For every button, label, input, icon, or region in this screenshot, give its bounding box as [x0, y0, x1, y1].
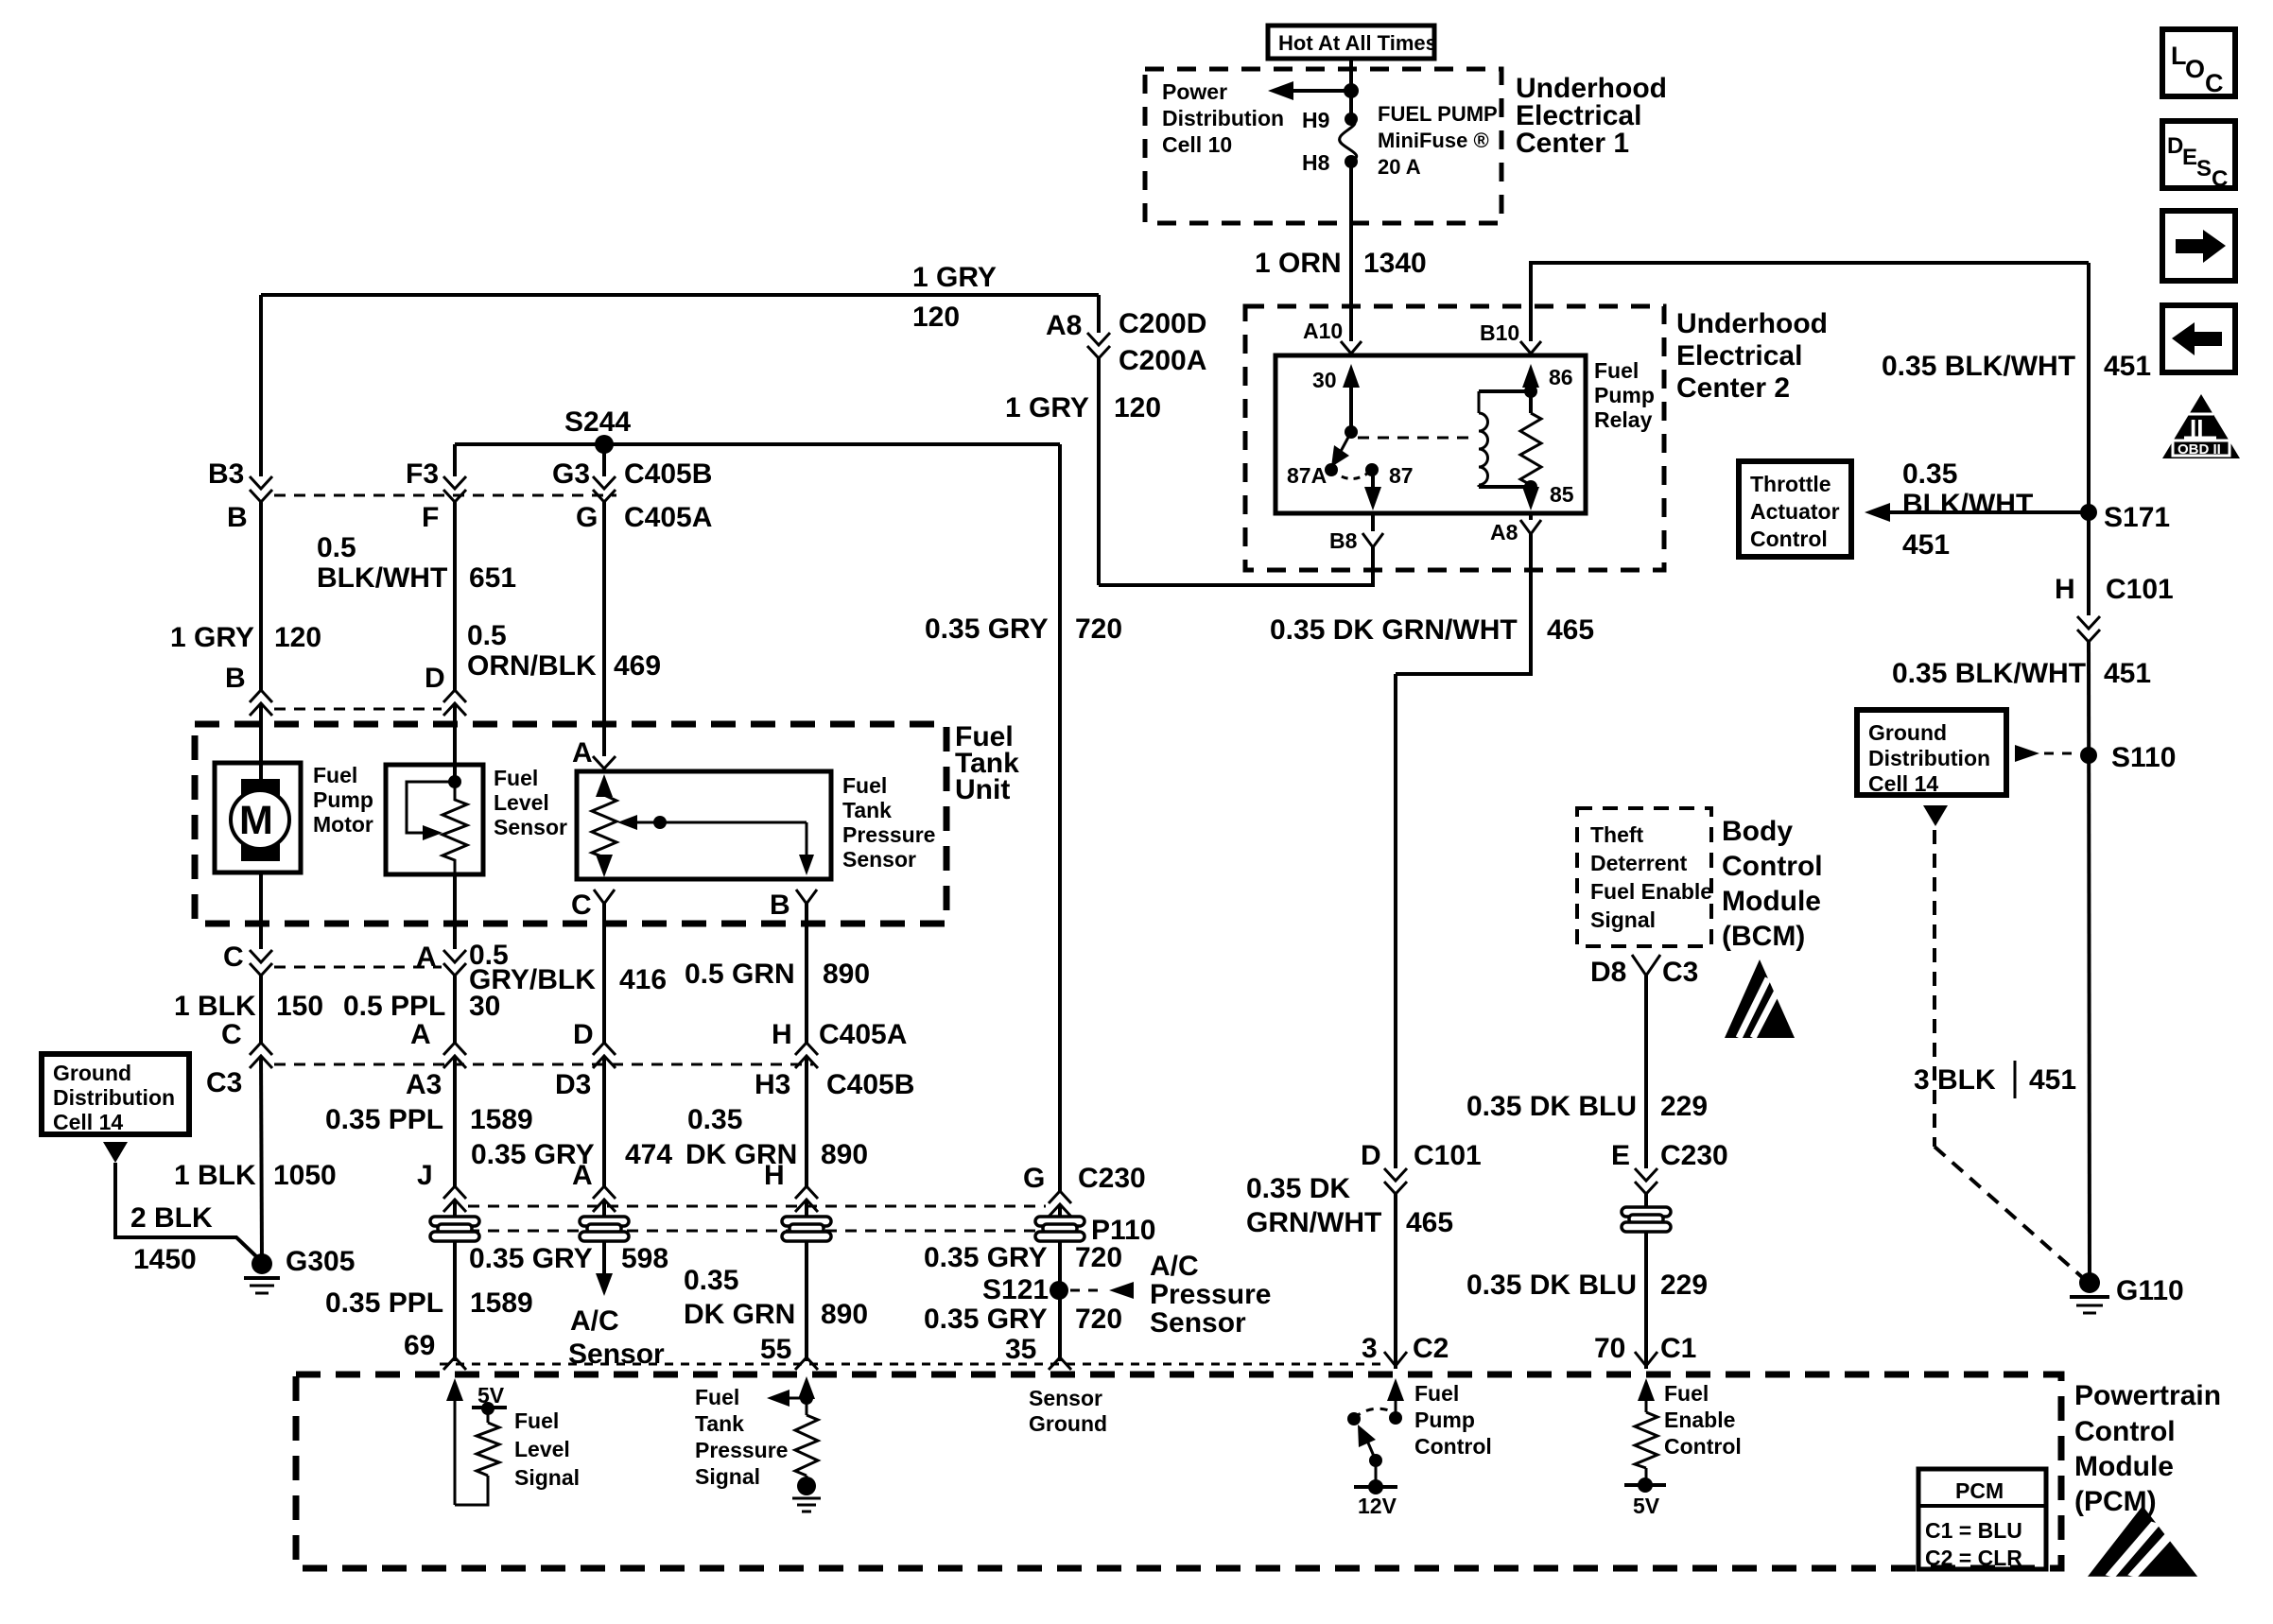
- svg-text:451: 451: [2029, 1064, 2076, 1096]
- svg-text:C230: C230: [1660, 1140, 1728, 1171]
- wire C3 column down to G305: [261, 1056, 262, 1264]
- svg-text:55: 55: [760, 1334, 791, 1365]
- fuel pump control switch: [1347, 1408, 1402, 1518]
- dashed connector row B/D: [274, 708, 442, 711]
- svg-text:465: 465: [1547, 614, 1594, 646]
- svg-text:Control: Control: [1664, 1434, 1742, 1459]
- connector D C101 double chevron: [1384, 1168, 1407, 1194]
- label 0.35 GRY 474: [471, 1139, 672, 1170]
- svg-text:Sensor: Sensor: [842, 847, 916, 872]
- label separator tick: [2014, 1061, 2017, 1098]
- 5V supply tick fuel enable: [1624, 1468, 1666, 1518]
- svg-text:C405B: C405B: [624, 458, 712, 490]
- svg-text:2 BLK: 2 BLK: [130, 1202, 213, 1234]
- dashed connector row B3: [274, 494, 616, 497]
- wire pressure B pin down to C405A: [805, 904, 808, 1043]
- svg-text:0.35 GRY: 0.35 GRY: [925, 613, 1049, 645]
- svg-text:120: 120: [1114, 392, 1161, 423]
- dashed ground path diagonal to G110: [1935, 1147, 2082, 1277]
- grommet P110 at A: [580, 1217, 629, 1241]
- relay contact 87: [1365, 463, 1379, 476]
- node S171: [2080, 504, 2097, 521]
- dashed box Underhood Electrical Center 2: [1245, 306, 1664, 570]
- svg-text:Distribution: Distribution: [1868, 746, 1990, 770]
- svg-text:Signal: Signal: [695, 1464, 760, 1489]
- svg-text:30: 30: [469, 991, 500, 1022]
- svg-text:469: 469: [614, 650, 661, 682]
- svg-text:J: J: [417, 1160, 433, 1191]
- svg-text:1589: 1589: [470, 1104, 533, 1135]
- box "Hot At All Times": [1268, 26, 1437, 59]
- svg-text:1 ORN: 1 ORN: [1255, 248, 1342, 279]
- connector C/A in-tank chevrons: [250, 950, 272, 976]
- label 0.5 BLK/WHT 651: [317, 532, 516, 594]
- arrow down to A/C Sensor: [596, 1273, 613, 1296]
- svg-text:1 GRY: 1 GRY: [1005, 392, 1089, 423]
- label 1 BLK 1050: [174, 1160, 337, 1191]
- svg-text:C101: C101: [1414, 1140, 1482, 1171]
- connector 70 C1 Y: [1635, 1352, 1657, 1366]
- dashed connector row C/A in-tank: [274, 966, 442, 969]
- svg-text:69: 69: [404, 1330, 435, 1361]
- svg-text:D8: D8: [1590, 957, 1626, 988]
- dashed box Powertrain Control Module PCM: [296, 1374, 2061, 1568]
- svg-text:D: D: [2167, 133, 2183, 159]
- wire right spine down to C101: [2087, 263, 2091, 615]
- svg-text:35: 35: [1005, 1334, 1036, 1365]
- svg-text:451: 451: [1902, 529, 1950, 561]
- svg-text:Ground: Ground: [53, 1061, 131, 1085]
- grommet P110 labelled: [1035, 1217, 1084, 1241]
- svg-text:1 GRY: 1 GRY: [912, 262, 997, 293]
- svg-text:465: 465: [1406, 1207, 1453, 1238]
- svg-text:0.35 BLK/WHT: 0.35 BLK/WHT: [1882, 351, 2075, 382]
- svg-text:87A: 87A: [1287, 463, 1327, 488]
- svg-text:5V: 5V: [1633, 1494, 1660, 1518]
- wire D8/C3 down to E C230: [1644, 976, 1648, 1168]
- dashed arc 87A to 87: [1331, 470, 1372, 479]
- wire level sensor to A connector: [453, 874, 457, 949]
- label 0.35 DK BLU 229: [1466, 1091, 1708, 1122]
- svg-text:30: 30: [1312, 368, 1337, 392]
- wire down to D C101: [1394, 674, 1397, 1168]
- svg-text:G110: G110: [2116, 1275, 2184, 1306]
- connector D chevrons up: [443, 690, 466, 716]
- relay linkage dashed line: [1358, 437, 1474, 440]
- wire left column from top horizontal down to B3: [259, 295, 263, 476]
- wire motor to C connector: [259, 872, 263, 949]
- svg-text:86: 86: [1549, 365, 1573, 389]
- svg-text:FUEL PUMP: FUEL PUMP: [1378, 102, 1498, 126]
- connector pin C Y: [594, 890, 615, 904]
- svg-text:PCM: PCM: [1955, 1478, 2004, 1503]
- wire F to D chevron: [453, 502, 457, 690]
- svg-text:B3: B3: [208, 458, 244, 490]
- svg-text:85: 85: [1550, 482, 1574, 507]
- svg-text:A10: A10: [1303, 319, 1343, 343]
- svg-text:A: A: [572, 1160, 593, 1191]
- connector G3/G chevrons: [593, 476, 616, 502]
- icon DESC box: [2162, 121, 2235, 192]
- label 1 ORN 1340: [1255, 248, 1427, 279]
- svg-text:Fuel: Fuel: [1594, 358, 1639, 383]
- svg-text:1340: 1340: [1363, 248, 1427, 279]
- connector 35 chevron: [1049, 1357, 1071, 1370]
- svg-text:MiniFuse ®: MiniFuse ®: [1378, 129, 1489, 152]
- wire into fuel level sensor: [453, 703, 457, 782]
- svg-text:BLK/WHT: BLK/WHT: [317, 562, 447, 594]
- svg-text:O: O: [2185, 55, 2205, 83]
- svg-text:Center 2: Center 2: [1676, 372, 1790, 404]
- connector 3 C2 Y: [1384, 1352, 1407, 1366]
- wire B to B chevron: [259, 502, 263, 690]
- connector 55 chevron: [795, 1357, 818, 1370]
- label Fuel Tank Unit: [955, 721, 1019, 805]
- label 0.35 GRY 720 below S121: [924, 1304, 1122, 1335]
- svg-text:720: 720: [1075, 1242, 1122, 1273]
- svg-text:A8: A8: [1046, 310, 1082, 341]
- svg-text:D: D: [425, 663, 445, 694]
- svg-text:1450: 1450: [133, 1244, 197, 1275]
- svg-text:Center 1: Center 1: [1516, 128, 1629, 159]
- svg-text:H: H: [772, 1019, 792, 1050]
- svg-text:890: 890: [821, 1299, 868, 1330]
- wire arrow to Power Distribution Cell 10: [1268, 81, 1351, 100]
- svg-text:120: 120: [912, 302, 960, 333]
- dashed connector row through grommets: [468, 1230, 1046, 1233]
- svg-text:Powertrain: Powertrain: [2074, 1380, 2221, 1411]
- svg-text:C1 = BLU: C1 = BLU: [1925, 1518, 2022, 1543]
- svg-text:A3: A3: [406, 1069, 442, 1100]
- svg-text:651: 651: [469, 562, 516, 594]
- svg-text:Distribution: Distribution: [1162, 106, 1284, 130]
- wire G down to pressure sensor pin A: [602, 502, 606, 756]
- wire 2 BLK 1450 to G305: [115, 1163, 258, 1258]
- wire H3 column down to H: [805, 1056, 808, 1188]
- label Fuel Pump Motor: [313, 763, 373, 837]
- svg-text:20 A: 20 A: [1378, 155, 1421, 179]
- svg-text:Fuel: Fuel: [1414, 1381, 1459, 1406]
- wire G3 drop from S244: [602, 444, 606, 476]
- esd symbol PCM: [2088, 1506, 2197, 1577]
- label 1 BLK 150: [174, 991, 323, 1022]
- label Fuel Level Signal: [514, 1408, 580, 1490]
- svg-text:1 BLK: 1 BLK: [174, 991, 256, 1022]
- svg-text:C: C: [2205, 69, 2224, 97]
- svg-text:H: H: [764, 1160, 785, 1191]
- grommet on fuel enable wire: [1622, 1207, 1671, 1232]
- label 0.35 DK GRN 890 lower: [684, 1265, 868, 1330]
- connector H C101 double chevron: [2077, 616, 2100, 642]
- relay pin 30 arrow up: [1343, 364, 1360, 432]
- svg-text:0.35: 0.35: [1902, 458, 1957, 490]
- svg-text:Electrical: Electrical: [1676, 340, 1802, 371]
- svg-text:Cell 10: Cell 10: [1162, 132, 1232, 157]
- relay switch arm arrow to 87A: [1331, 432, 1351, 467]
- svg-text:B10: B10: [1480, 320, 1519, 345]
- svg-text:0.5 PPL: 0.5 PPL: [343, 991, 445, 1022]
- svg-text:G: G: [576, 502, 598, 533]
- label A/C Pressure Sensor: [1150, 1251, 1271, 1339]
- wire E C230 down to PCM pin 70: [1644, 1194, 1648, 1369]
- wire F3 drop from S244: [453, 444, 457, 476]
- relay coil junction node 86: [1524, 385, 1537, 398]
- grommet P110 at J: [430, 1217, 479, 1241]
- dotted boundary above PCM: [440, 1363, 1382, 1366]
- svg-text:C405A: C405A: [819, 1019, 907, 1050]
- ground G110: [2070, 1272, 2109, 1313]
- wire arrow S171 to Throttle Actuator Control: [1865, 503, 2089, 522]
- component Fuel Level Sensor: [386, 765, 483, 874]
- svg-text:C101: C101: [2106, 574, 2174, 605]
- relay pin 86 arrow up: [1522, 364, 1539, 391]
- wire A3 column down to J: [453, 1056, 457, 1188]
- label Power Distribution Cell 10: [1162, 79, 1284, 157]
- svg-text:Fuel Enable: Fuel Enable: [1590, 879, 1712, 904]
- component Fuel Pump Motor: [215, 763, 301, 872]
- svg-text:Power: Power: [1162, 79, 1227, 104]
- node S244: [595, 435, 614, 454]
- svg-text:Distribution: Distribution: [53, 1085, 175, 1110]
- svg-text:C: C: [2212, 166, 2228, 192]
- svg-text:GRN/WHT: GRN/WHT: [1246, 1207, 1381, 1238]
- relay coil resistor: [1520, 391, 1541, 485]
- svg-text:1050: 1050: [273, 1160, 337, 1191]
- svg-text:Level: Level: [514, 1437, 570, 1461]
- svg-text:0.35 DK BLU: 0.35 DK BLU: [1466, 1270, 1637, 1301]
- svg-text:C: C: [221, 1019, 242, 1050]
- svg-text:0.35 GRY: 0.35 GRY: [469, 1243, 593, 1274]
- svg-text:E: E: [1611, 1140, 1630, 1171]
- svg-text:0.35 PPL: 0.35 PPL: [325, 1287, 443, 1319]
- connector pin A chevron: [593, 756, 616, 769]
- icon left-arrow box: [2162, 305, 2235, 372]
- svg-text:Cell 14: Cell 14: [53, 1110, 123, 1134]
- wire C connector to C405A: [259, 976, 263, 1043]
- node and left arrow fuel tank pressure: [767, 1390, 813, 1407]
- triangle down under Ground Distribution left: [103, 1142, 128, 1163]
- svg-text:1 GRY: 1 GRY: [170, 622, 254, 653]
- connector D8 C3 Y: [1632, 955, 1660, 976]
- relay switch pivot node: [1345, 425, 1358, 439]
- ground fuel tank pressure signal: [792, 1476, 821, 1512]
- pcm pin 69 arrow up: [446, 1378, 463, 1505]
- relay box Fuel Pump Relay: [1275, 355, 1586, 513]
- svg-text:C3: C3: [206, 1067, 242, 1098]
- label 0.35 GRY 598: [469, 1243, 668, 1274]
- svg-text:F3: F3: [406, 458, 439, 490]
- svg-text:M: M: [239, 798, 273, 843]
- svg-text:OBD II: OBD II: [2178, 441, 2221, 458]
- svg-text:Tank: Tank: [842, 798, 892, 822]
- label 0.5 GRN 890: [685, 959, 870, 990]
- label 0.35 DK GRN/WHT 465 two lines: [1246, 1173, 1453, 1238]
- svg-text:0.35 DK: 0.35 DK: [1246, 1173, 1350, 1204]
- svg-text:H9: H9: [1302, 108, 1329, 132]
- svg-text:1 BLK: 1 BLK: [174, 1160, 256, 1191]
- svg-text:3 BLK: 3 BLK: [1914, 1064, 1996, 1096]
- svg-text:1589: 1589: [470, 1287, 533, 1319]
- svg-text:0.35 DK BLU: 0.35 DK BLU: [1466, 1091, 1637, 1122]
- svg-text:87: 87: [1389, 463, 1414, 488]
- svg-text:S110: S110: [2111, 742, 2176, 773]
- label 0.35 GRY 720 upper: [925, 613, 1122, 645]
- connector A10 chevron: [1341, 341, 1362, 354]
- svg-text:70: 70: [1594, 1333, 1625, 1364]
- svg-text:416: 416: [619, 964, 667, 995]
- svg-text:Ground: Ground: [1868, 720, 1947, 745]
- svg-text:Sensor: Sensor: [1150, 1307, 1246, 1339]
- icon LOC box: [2162, 29, 2235, 97]
- svg-text:B: B: [227, 502, 248, 533]
- node S121: [1050, 1281, 1068, 1300]
- esd symbol BCM: [1725, 959, 1795, 1038]
- svg-text:598: 598: [621, 1243, 668, 1274]
- label Sensor Ground: [1029, 1386, 1107, 1436]
- label Fuel Tank Pressure Sensor: [842, 773, 935, 872]
- wire from Hot At All Times down to fuse: [1349, 59, 1353, 119]
- svg-text:Actuator: Actuator: [1750, 499, 1840, 524]
- svg-text:C3: C3: [1662, 957, 1698, 988]
- svg-text:A: A: [416, 942, 437, 973]
- relay coil: [1479, 391, 1488, 487]
- wire from B10 up and across to right spine: [1531, 263, 2089, 341]
- svg-text:Throttle: Throttle: [1750, 472, 1831, 496]
- dashed arrow S121 to A/C Pressure Sensor: [1070, 1282, 1134, 1299]
- resistor fuel tank pressure signal: [795, 1415, 818, 1476]
- svg-text:Pressure: Pressure: [1150, 1279, 1271, 1310]
- svg-text:890: 890: [823, 959, 870, 990]
- svg-text:120: 120: [274, 622, 321, 653]
- svg-text:S121: S121: [982, 1274, 1049, 1305]
- svg-text:G305: G305: [286, 1246, 355, 1277]
- node S110: [2080, 747, 2097, 764]
- label 0.5 PPL 30: [343, 991, 500, 1022]
- svg-text:C2 = CLR: C2 = CLR: [1925, 1546, 2022, 1570]
- grommet P110 at H: [782, 1217, 831, 1241]
- label 0.35 DK GRN 890: [685, 1104, 868, 1170]
- svg-text:Level: Level: [494, 790, 549, 815]
- connector B chevrons up: [250, 690, 272, 716]
- dashed box Theft Deterrent Fuel Enable Signal: [1577, 808, 1712, 946]
- svg-text:720: 720: [1075, 613, 1122, 645]
- label 0.35 GRY 720 at P110: [924, 1242, 1122, 1273]
- wire A connector to C405A: [453, 976, 457, 1043]
- connector F3/F chevrons: [443, 476, 466, 502]
- dashed box Fuel Tank Unit: [195, 724, 946, 924]
- label A/C Sensor: [568, 1305, 665, 1370]
- svg-text:D: D: [573, 1019, 594, 1050]
- label 0.35 PPL 1589 lower: [325, 1287, 533, 1319]
- svg-text:Control: Control: [2074, 1416, 2176, 1447]
- svg-text:Signal: Signal: [1590, 907, 1656, 932]
- connector row C405A/C405B chevrons: [250, 1043, 818, 1068]
- svg-text:Hot At All Times: Hot At All Times: [1278, 31, 1437, 55]
- svg-text:Cell 14: Cell 14: [1868, 771, 1938, 796]
- svg-text:150: 150: [276, 991, 323, 1022]
- connector pin B Y: [796, 890, 817, 904]
- wire into fuel pump motor: [259, 703, 263, 779]
- svg-text:B: B: [225, 663, 246, 694]
- svg-text:S171: S171: [2104, 502, 2170, 533]
- svg-text:890: 890: [821, 1139, 868, 1170]
- svg-text:Pressure: Pressure: [695, 1438, 788, 1462]
- svg-text:0.35 GRY: 0.35 GRY: [924, 1242, 1048, 1273]
- svg-text:Underhood: Underhood: [1676, 308, 1828, 339]
- svg-text:C200A: C200A: [1119, 345, 1206, 376]
- 5V supply tick fuel level: [472, 1383, 507, 1415]
- node junction at power distribution tap: [1344, 83, 1359, 98]
- label 0.35 PPL 1589: [325, 1104, 533, 1135]
- svg-text:G3: G3: [552, 458, 590, 490]
- svg-text:S: S: [2196, 156, 2212, 181]
- box Throttle Actuator Control: [1739, 461, 1851, 557]
- triangle down under Ground Distribution right: [1923, 805, 1948, 826]
- svg-text:0.35 DK GRN/WHT: 0.35 DK GRN/WHT: [1270, 614, 1518, 646]
- connector A chevrons: [443, 950, 466, 976]
- component Fuel Tank Pressure Sensor: [577, 771, 831, 879]
- svg-text:C1: C1: [1660, 1333, 1696, 1364]
- connector B10 chevron: [1520, 341, 1541, 354]
- svg-text:451: 451: [2104, 351, 2151, 382]
- label Fuel Pump Control: [1414, 1381, 1492, 1459]
- svg-text:H: H: [2055, 574, 2075, 605]
- svg-text:229: 229: [1660, 1091, 1708, 1122]
- box Ground Distribution Cell 14 right: [1857, 710, 2006, 796]
- svg-text:Fuel: Fuel: [1664, 1381, 1709, 1406]
- icon right-arrow box: [2162, 211, 2235, 281]
- svg-text:C2: C2: [1413, 1333, 1449, 1364]
- pcm pin 55 arrow up: [798, 1376, 815, 1415]
- svg-text:451: 451: [2104, 658, 2151, 689]
- wire horizontal to B8: [1099, 547, 1373, 585]
- svg-text:B8: B8: [1329, 528, 1358, 553]
- connector A8 Y: [1520, 513, 1541, 534]
- svg-text:0.5 GRN: 0.5 GRN: [685, 959, 795, 990]
- wire stubs through grommets: [453, 1200, 457, 1361]
- svg-text:Unit: Unit: [955, 774, 1010, 805]
- label 0.35 DK BLU 229 lower: [1466, 1270, 1708, 1301]
- dashed connector row above grommets: [468, 1205, 1046, 1208]
- wire A8 relay down and across to D C101: [1396, 534, 1531, 674]
- relay node 85: [1524, 480, 1537, 493]
- relay pin 87 wire arrow down to B8: [1364, 470, 1381, 510]
- wire 1 GRY 120 top horizontal: [261, 293, 1099, 297]
- relay pin 85 wire arrow down to A8: [1522, 487, 1539, 510]
- dashed box Underhood Electrical Center 1: [1145, 69, 1501, 223]
- svg-text:0.35 GRY: 0.35 GRY: [924, 1304, 1048, 1335]
- pcm pin 70 arrow up: [1638, 1378, 1655, 1412]
- svg-text:720: 720: [1075, 1304, 1122, 1335]
- svg-text:Relay: Relay: [1594, 407, 1653, 432]
- svg-text:Fuel: Fuel: [842, 773, 887, 798]
- resistor fuel enable control: [1635, 1412, 1657, 1468]
- svg-text:Control: Control: [1722, 851, 1823, 882]
- svg-text:0.5: 0.5: [467, 620, 507, 651]
- wire right spine C101 to G110: [2089, 642, 2090, 1283]
- connector 69 chevron: [443, 1357, 466, 1370]
- svg-text:Body: Body: [1722, 816, 1793, 847]
- svg-text:Tank: Tank: [695, 1411, 744, 1436]
- box Ground Distribution Cell 14 left: [42, 1054, 189, 1134]
- svg-text:Pump: Pump: [313, 787, 373, 812]
- svg-text:474: 474: [625, 1139, 672, 1170]
- svg-text:C200D: C200D: [1119, 308, 1206, 339]
- label Body Control Module BCM: [1722, 816, 1823, 952]
- svg-text:Fuel: Fuel: [514, 1408, 559, 1433]
- svg-text:Pressure: Pressure: [842, 822, 935, 847]
- svg-text:A: A: [410, 1019, 431, 1050]
